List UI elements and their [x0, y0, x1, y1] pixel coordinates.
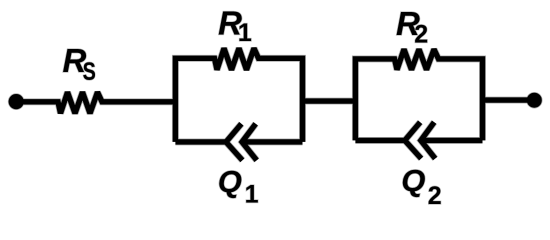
svg-text:S: S	[83, 58, 96, 86]
svg-text:1: 1	[238, 19, 252, 47]
svg-text:2: 2	[428, 182, 442, 210]
svg-text:1: 1	[245, 181, 259, 209]
svg-text:Q: Q	[401, 163, 425, 198]
svg-text:Q: Q	[218, 164, 242, 199]
svg-text:2: 2	[414, 20, 428, 48]
